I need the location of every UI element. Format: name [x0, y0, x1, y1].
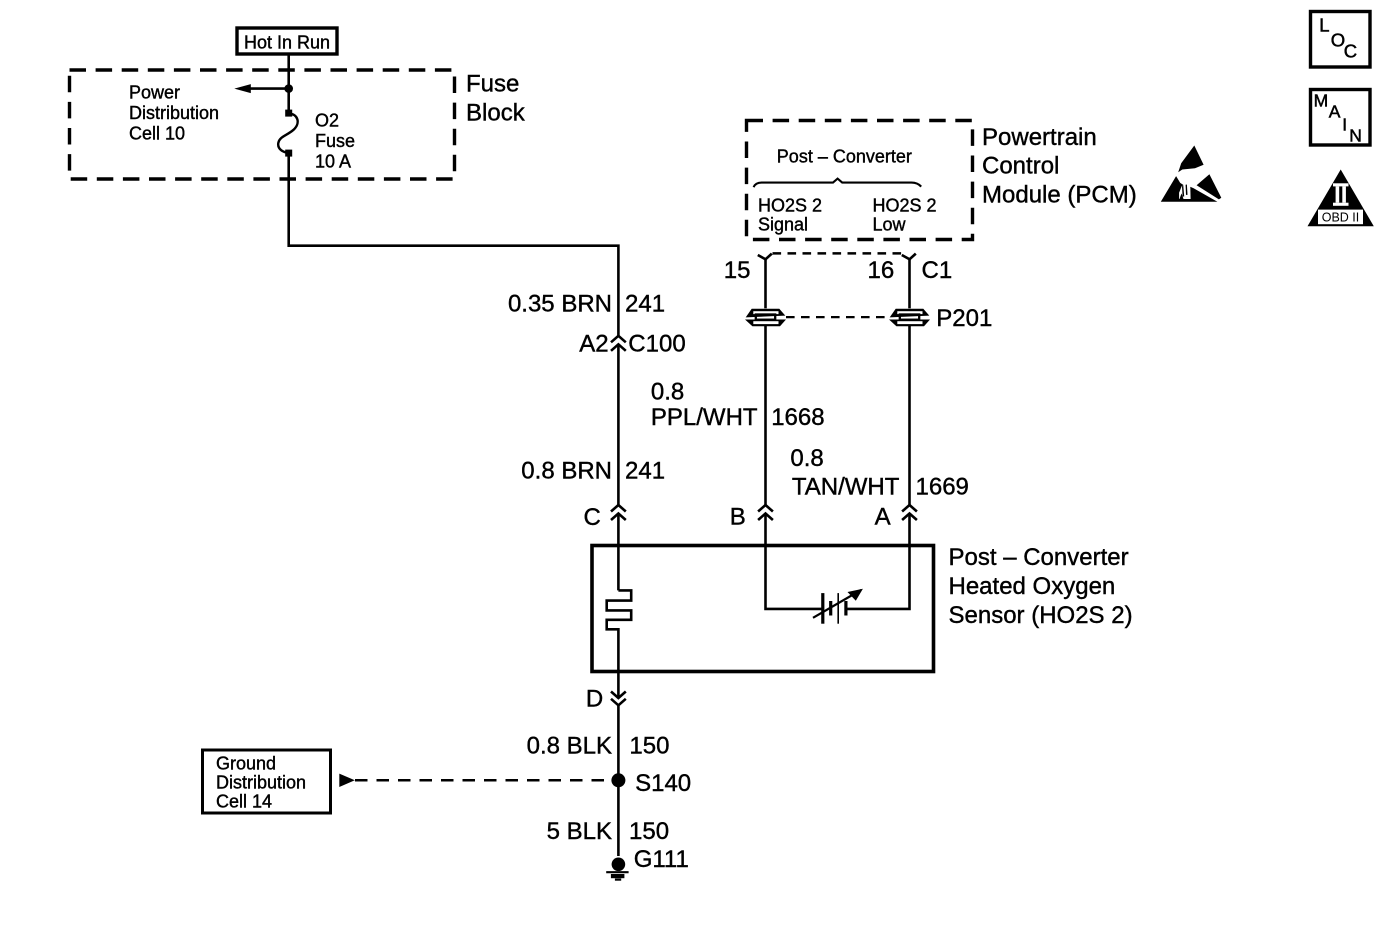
svg-text:A: A — [1329, 102, 1341, 122]
svg-text:Power: Power — [129, 82, 180, 102]
svg-text:150: 150 — [629, 732, 669, 759]
svg-text:PPL/WHT: PPL/WHT — [651, 404, 758, 431]
svg-text:I: I — [1342, 115, 1347, 135]
svg-text:D: D — [586, 686, 603, 713]
svg-text:0.8: 0.8 — [790, 445, 823, 472]
svg-text:Sensor (HO2S 2): Sensor (HO2S 2) — [949, 602, 1133, 629]
svg-text:0.8: 0.8 — [651, 379, 684, 406]
svg-text:C100: C100 — [628, 331, 685, 358]
svg-text:Heated Oxygen: Heated Oxygen — [949, 573, 1116, 600]
svg-text:Control: Control — [982, 153, 1059, 180]
svg-text:Fuse: Fuse — [315, 131, 355, 151]
svg-text:Powertrain: Powertrain — [982, 124, 1097, 151]
svg-text:P201: P201 — [936, 305, 992, 332]
svg-text:16: 16 — [868, 257, 895, 284]
svg-text:10 A: 10 A — [315, 152, 351, 172]
svg-text:L: L — [1319, 15, 1329, 36]
svg-text:HO2S 2: HO2S 2 — [758, 196, 822, 216]
svg-text:Distribution: Distribution — [129, 103, 219, 123]
svg-text:Post – Converter: Post – Converter — [777, 146, 912, 166]
svg-text:HO2S 2: HO2S 2 — [873, 196, 937, 216]
svg-text:Post – Converter: Post – Converter — [949, 544, 1129, 571]
svg-text:TAN/WHT: TAN/WHT — [792, 474, 900, 501]
svg-text:O2: O2 — [315, 111, 339, 131]
svg-text:C: C — [584, 504, 601, 531]
svg-text:0.8 BLK: 0.8 BLK — [527, 732, 612, 759]
svg-text:C: C — [1344, 41, 1357, 62]
svg-text:Distribution: Distribution — [216, 773, 306, 793]
svg-text:Signal: Signal — [758, 214, 808, 234]
svg-text:Low: Low — [873, 214, 907, 234]
svg-text:Ground: Ground — [216, 753, 276, 773]
svg-text:B: B — [730, 504, 746, 531]
svg-text:G111: G111 — [634, 846, 689, 873]
svg-text:Block: Block — [466, 99, 526, 126]
svg-text:241: 241 — [625, 457, 665, 484]
svg-text:Fuse: Fuse — [466, 71, 519, 98]
svg-text:Cell 14: Cell 14 — [216, 792, 272, 812]
svg-text:5 BLK: 5 BLK — [547, 818, 612, 845]
svg-text:S140: S140 — [635, 770, 691, 797]
svg-text:M: M — [1314, 91, 1329, 111]
svg-text:N: N — [1349, 125, 1362, 145]
svg-text:A2: A2 — [579, 331, 608, 358]
svg-text:Hot In Run: Hot In Run — [244, 33, 330, 53]
svg-text:150: 150 — [629, 818, 669, 845]
svg-text:A: A — [875, 504, 891, 531]
svg-text:1668: 1668 — [771, 404, 824, 431]
svg-text:Cell 10: Cell 10 — [129, 124, 185, 144]
svg-text:C1: C1 — [922, 257, 953, 284]
svg-text:OBD II: OBD II — [1322, 210, 1360, 224]
svg-text:Module (PCM): Module (PCM) — [982, 182, 1137, 209]
svg-text:0.8 BRN: 0.8 BRN — [521, 457, 612, 484]
svg-text:0.35 BRN: 0.35 BRN — [508, 291, 612, 318]
svg-text:1669: 1669 — [916, 474, 969, 501]
svg-text:241: 241 — [625, 291, 665, 318]
svg-text:15: 15 — [724, 257, 751, 284]
